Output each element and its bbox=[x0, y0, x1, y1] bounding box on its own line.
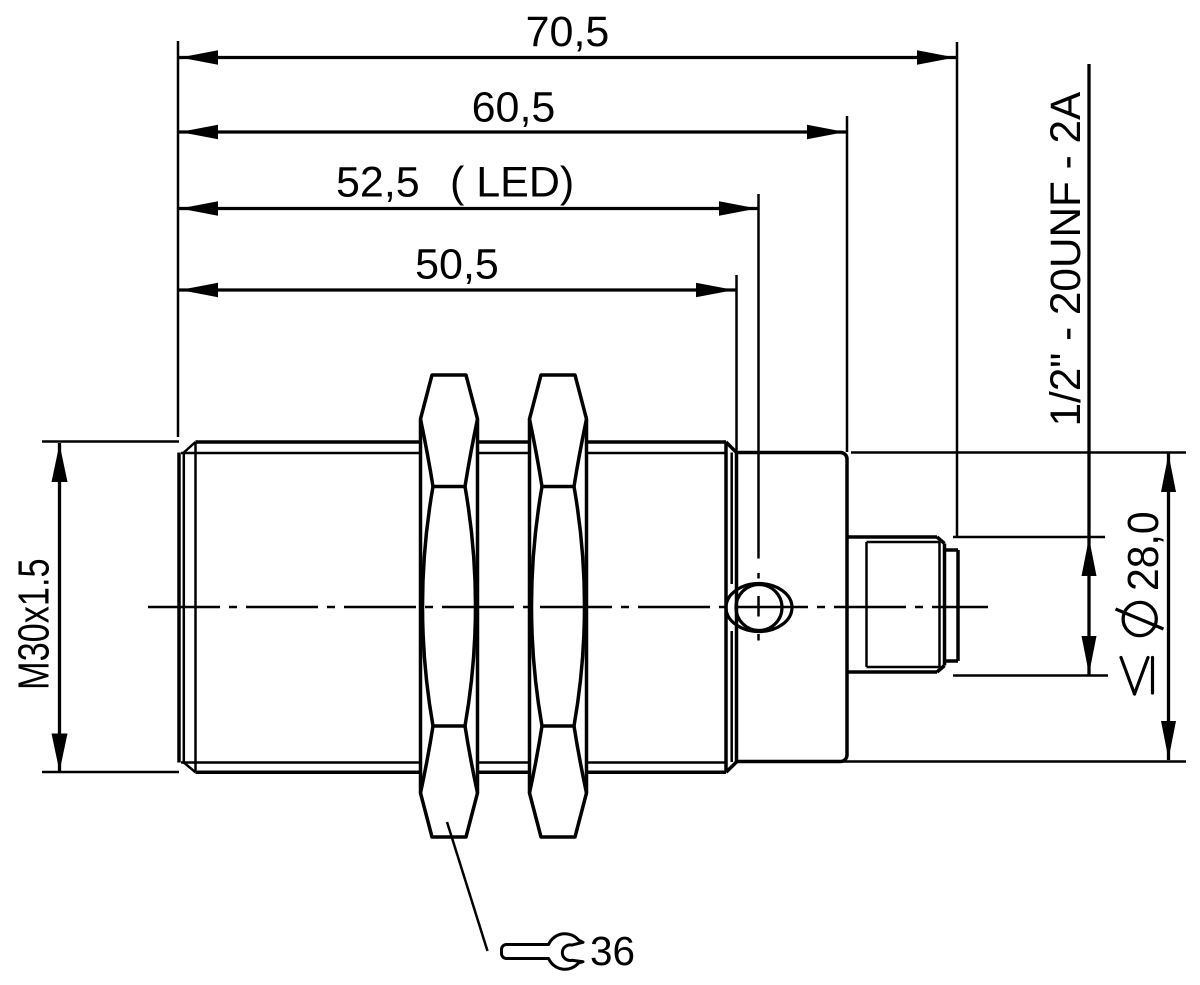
leader line to wrench bbox=[447, 822, 488, 951]
dimension 50,5 arrows bbox=[180, 283, 734, 298]
svg-text:1/2" - 20UNF - 2A: 1/2" - 20UNF - 2A bbox=[1042, 91, 1089, 426]
dimension diameter 28,0 extension line top bbox=[851, 451, 1186, 454]
hex nut 2 bbox=[530, 375, 587, 837]
dimension M30x1.5 extension lines bbox=[42, 442, 179, 773]
extension line left x=178 bbox=[177, 41, 180, 437]
dimension 1/2-20UNF-2A text bbox=[1042, 91, 1089, 426]
dimension 1/2-20UNF-2A line bbox=[1087, 64, 1090, 675]
dimension 60,5 arrows bbox=[180, 125, 845, 140]
dimension M30x1.5 arrows bbox=[52, 444, 68, 772]
wrench symbol bbox=[502, 934, 584, 970]
dimension 70,5 line bbox=[178, 56, 957, 59]
dimension 60,5 line bbox=[178, 130, 847, 133]
barrel outline bbox=[179, 442, 737, 772]
dimension 50,5 line bbox=[178, 288, 736, 291]
svg-text:60,5: 60,5 bbox=[472, 84, 556, 132]
diameter symbol slash bbox=[1116, 609, 1164, 629]
dimension M30x1.5 text bbox=[9, 558, 58, 690]
dimension 1/2-20UNF-2A extension lines bbox=[953, 537, 1108, 676]
dimension 52,5 (LED) arrows bbox=[180, 201, 757, 216]
extension line x=736 (50,5) bbox=[735, 275, 738, 452]
diameter symbol circle bbox=[1123, 602, 1156, 635]
svg-text:28,0: 28,0 bbox=[1120, 511, 1169, 591]
dimension 1/2-20UNF-2A arrows bbox=[1082, 538, 1097, 674]
dimension diameter 28,0 arrows bbox=[1161, 454, 1176, 759]
dimension 70,5 arrows bbox=[180, 50, 955, 65]
dimension diameter 28,0 line bbox=[1167, 453, 1170, 760]
svg-text:36: 36 bbox=[590, 928, 635, 974]
svg-text:52,5: 52,5 bbox=[336, 159, 420, 207]
svg-text:50,5: 50,5 bbox=[415, 241, 499, 289]
less-or-equal symbol bbox=[1121, 658, 1153, 695]
connector thread lines bbox=[867, 542, 940, 667]
housing bottom extension to diameter dim bbox=[843, 760, 1186, 763]
hex nut 1 bbox=[421, 375, 478, 837]
LED indicator bbox=[726, 584, 792, 632]
extension line x=957 (70,5) bbox=[956, 42, 959, 536]
svg-text:M30x1.5: M30x1.5 bbox=[9, 558, 58, 690]
svg-text:( LED): ( LED) bbox=[450, 159, 574, 207]
connector outline bbox=[847, 537, 958, 672]
dimension diameter 28,0 text bbox=[1120, 511, 1169, 591]
svg-text:70,5: 70,5 bbox=[526, 8, 610, 56]
centerline horizontal bbox=[148, 606, 988, 609]
barrel thread and chamfer lines bbox=[181, 442, 732, 772]
dimension M30x1.5 line bbox=[58, 443, 61, 772]
housing outline bbox=[737, 453, 848, 762]
extension line x=847 (60,5) bbox=[846, 116, 849, 452]
dimension 52,5 (LED) line bbox=[178, 207, 759, 210]
extension line x=759 (52,5 to LED) bbox=[757, 194, 760, 641]
